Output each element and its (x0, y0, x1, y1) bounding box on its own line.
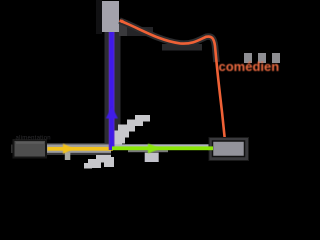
node: dark block right of plate (119, 23, 128, 36)
node: streak below yellow arrow (65, 153, 71, 161)
wire Y1: yellow beam (48, 147, 114, 151)
wire: inner light halo along yellow beam (47, 144, 111, 152)
wire O1: orange connection wire (120, 21, 226, 142)
wire B1: electron beam (blue) (110, 32, 114, 150)
wire G1: green beam (112, 146, 213, 150)
node: dark halo under curve sag (162, 44, 202, 51)
electrode plate P1 (top) (102, 1, 119, 32)
node: gray block under green arrow (145, 153, 159, 162)
arrow on green beam (148, 144, 161, 154)
node: bright blob at wire-plate joint (120, 20, 123, 23)
node: dark block under curve start (127, 27, 153, 36)
wire G1: green beam end over meter frame (208, 146, 213, 150)
light ray (pixelated staircase) (84, 115, 150, 169)
arrow on yellow beam (63, 144, 74, 154)
wire B1: electron beam (blue) fringe (109, 32, 115, 150)
wire: light halo above green beam (114, 144, 209, 146)
component: power supply box (bottom-left) (11, 145, 15, 154)
wire: faint halo left of plate (96, 0, 102, 34)
component: meter box (bottom-right) (209, 138, 249, 161)
arrow on electron beam (106, 107, 118, 119)
svg-text:comédien: comédien (219, 59, 280, 74)
svg-text:alimentation: alimentation (16, 135, 51, 141)
node: gray blocks above label (244, 53, 280, 63)
wire: outer faint halo along yellow beam (47, 143, 111, 155)
wire O1: orange connection wire halo (120, 21, 217, 63)
node: dark halo band behind electron beam (105, 32, 121, 147)
wire: faint halo below green beam near arrow (128, 150, 168, 152)
